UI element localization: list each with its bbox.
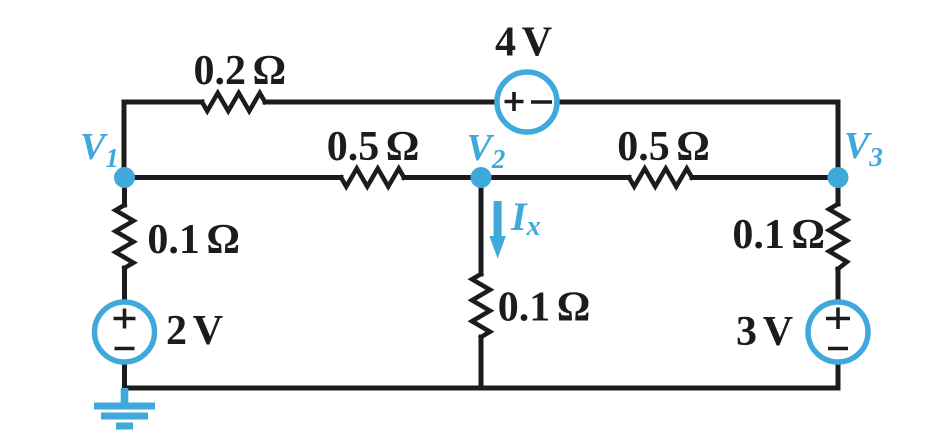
label 0.5 ohm right <box>617 124 710 170</box>
svg-text:V3: V3 <box>844 125 883 172</box>
svg-text:0.2 Ω: 0.2 Ω <box>194 48 287 94</box>
svg-text:4 V: 4 V <box>495 20 552 66</box>
wire left resistor to 2V source <box>122 268 127 300</box>
label 3 V <box>736 309 793 355</box>
svg-text:V1: V1 <box>80 126 119 173</box>
resistor 0.1 ohm right <box>829 204 847 269</box>
label 2 V <box>166 308 223 354</box>
minus sign of 3V source <box>828 347 848 351</box>
minus sign of 2V source <box>115 347 135 351</box>
label 0.5 ohm left <box>327 124 420 170</box>
node label V2 <box>467 127 506 174</box>
resistor 0.1 ohm middle <box>472 274 490 337</box>
wire top middle segment <box>265 100 496 105</box>
wire right resistor to 3V source <box>836 269 841 300</box>
node label V3 <box>844 125 883 172</box>
resistor 0.2 ohm <box>202 93 265 111</box>
label 0.2 ohm <box>194 48 287 94</box>
wire V3 to right resistor <box>836 178 841 205</box>
wire V2 to middle resistor <box>479 178 484 275</box>
svg-text:3 V: 3 V <box>736 309 793 355</box>
plus sign of 2V source <box>114 309 136 329</box>
wire 3V source to bottom <box>836 364 841 388</box>
label 0.1 ohm middle <box>498 285 591 331</box>
current arrow Ix <box>489 201 506 259</box>
svg-text:0.5 Ω: 0.5 Ω <box>617 124 710 170</box>
node label V1 <box>80 126 119 173</box>
voltage source U 4V circle <box>497 72 557 132</box>
voltage source 2V circle <box>95 302 155 362</box>
current label Ix <box>510 194 541 242</box>
wire top-left segment <box>124 102 202 177</box>
label 0.1 ohm right <box>732 212 825 258</box>
minus sign of 4V source <box>531 100 552 104</box>
svg-text:0.1 Ω: 0.1 Ω <box>147 217 240 263</box>
wire middle center segment <box>404 175 629 180</box>
label 0.1 ohm left <box>147 217 240 263</box>
node V3 dot <box>828 167 849 188</box>
svg-text:Ix: Ix <box>510 194 541 242</box>
svg-text:V2: V2 <box>467 127 506 174</box>
voltage source 3V circle <box>808 302 868 362</box>
label 4 V <box>495 20 552 66</box>
resistor 0.5 ohm right <box>629 169 692 187</box>
wire middle left segment <box>124 175 341 180</box>
node V1 dot <box>114 167 135 188</box>
wire V1 to left resistor <box>122 178 127 206</box>
wire top right segment <box>558 102 838 177</box>
resistor 0.1 ohm left <box>116 205 134 268</box>
wire middle right segment <box>692 175 838 180</box>
wire bottom rail <box>125 386 839 391</box>
plus sign of 4V source <box>505 92 524 111</box>
plus sign of 3V source <box>826 308 850 330</box>
wire middle resistor to bottom <box>479 337 484 388</box>
svg-text:2 V: 2 V <box>166 308 223 354</box>
ground <box>94 388 155 430</box>
svg-text:0.1 Ω: 0.1 Ω <box>498 285 591 331</box>
node V2 dot <box>471 167 492 188</box>
svg-text:0.5 Ω: 0.5 Ω <box>327 124 420 170</box>
resistor 0.5 ohm left <box>341 169 404 187</box>
svg-text:0.1 Ω: 0.1 Ω <box>732 212 825 258</box>
wire 2V source to bottom <box>122 364 127 388</box>
